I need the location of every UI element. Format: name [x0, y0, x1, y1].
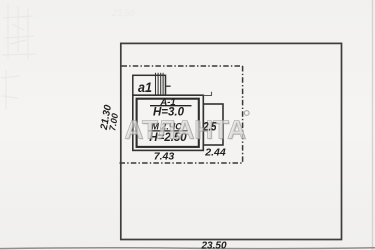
- svg-text:a1: a1: [138, 79, 152, 95]
- a1 tick: [166, 85, 171, 87]
- fraction bar 1: [150, 105, 192, 107]
- a1 hatch lines: [156, 73, 164, 95]
- right scan edge line: [372, 0, 374, 250]
- building outer wall: [133, 95, 204, 150]
- faint bleed-through sketch top-left: [1, 4, 36, 110]
- porch stub line right of building: [203, 92, 211, 96]
- parcel boundary dash-dot bottom: [120, 162, 243, 164]
- svg-text:23,50: 23,50: [111, 8, 135, 18]
- fraction bar 2: [149, 130, 189, 132]
- building inner wall: [137, 99, 199, 147]
- svg-text:2.44: 2.44: [204, 147, 226, 159]
- svg-text:23.50: 23.50: [200, 241, 226, 250]
- svg-text:7.43: 7.43: [154, 151, 175, 163]
- bottom scan edge line: [0, 247, 375, 250]
- parcel boundary dash-dot top: [122, 65, 243, 67]
- annex right of building: [203, 104, 223, 145]
- svg-text:2.5: 2.5: [202, 121, 216, 134]
- watermark (R) mark: [244, 111, 249, 116]
- outer frame: [121, 43, 342, 239]
- parcel boundary dash-dot right: [242, 66, 244, 163]
- a1 annex box: [133, 75, 166, 95]
- svg-text:АТЛАНТА: АТЛАНТА: [125, 114, 247, 144]
